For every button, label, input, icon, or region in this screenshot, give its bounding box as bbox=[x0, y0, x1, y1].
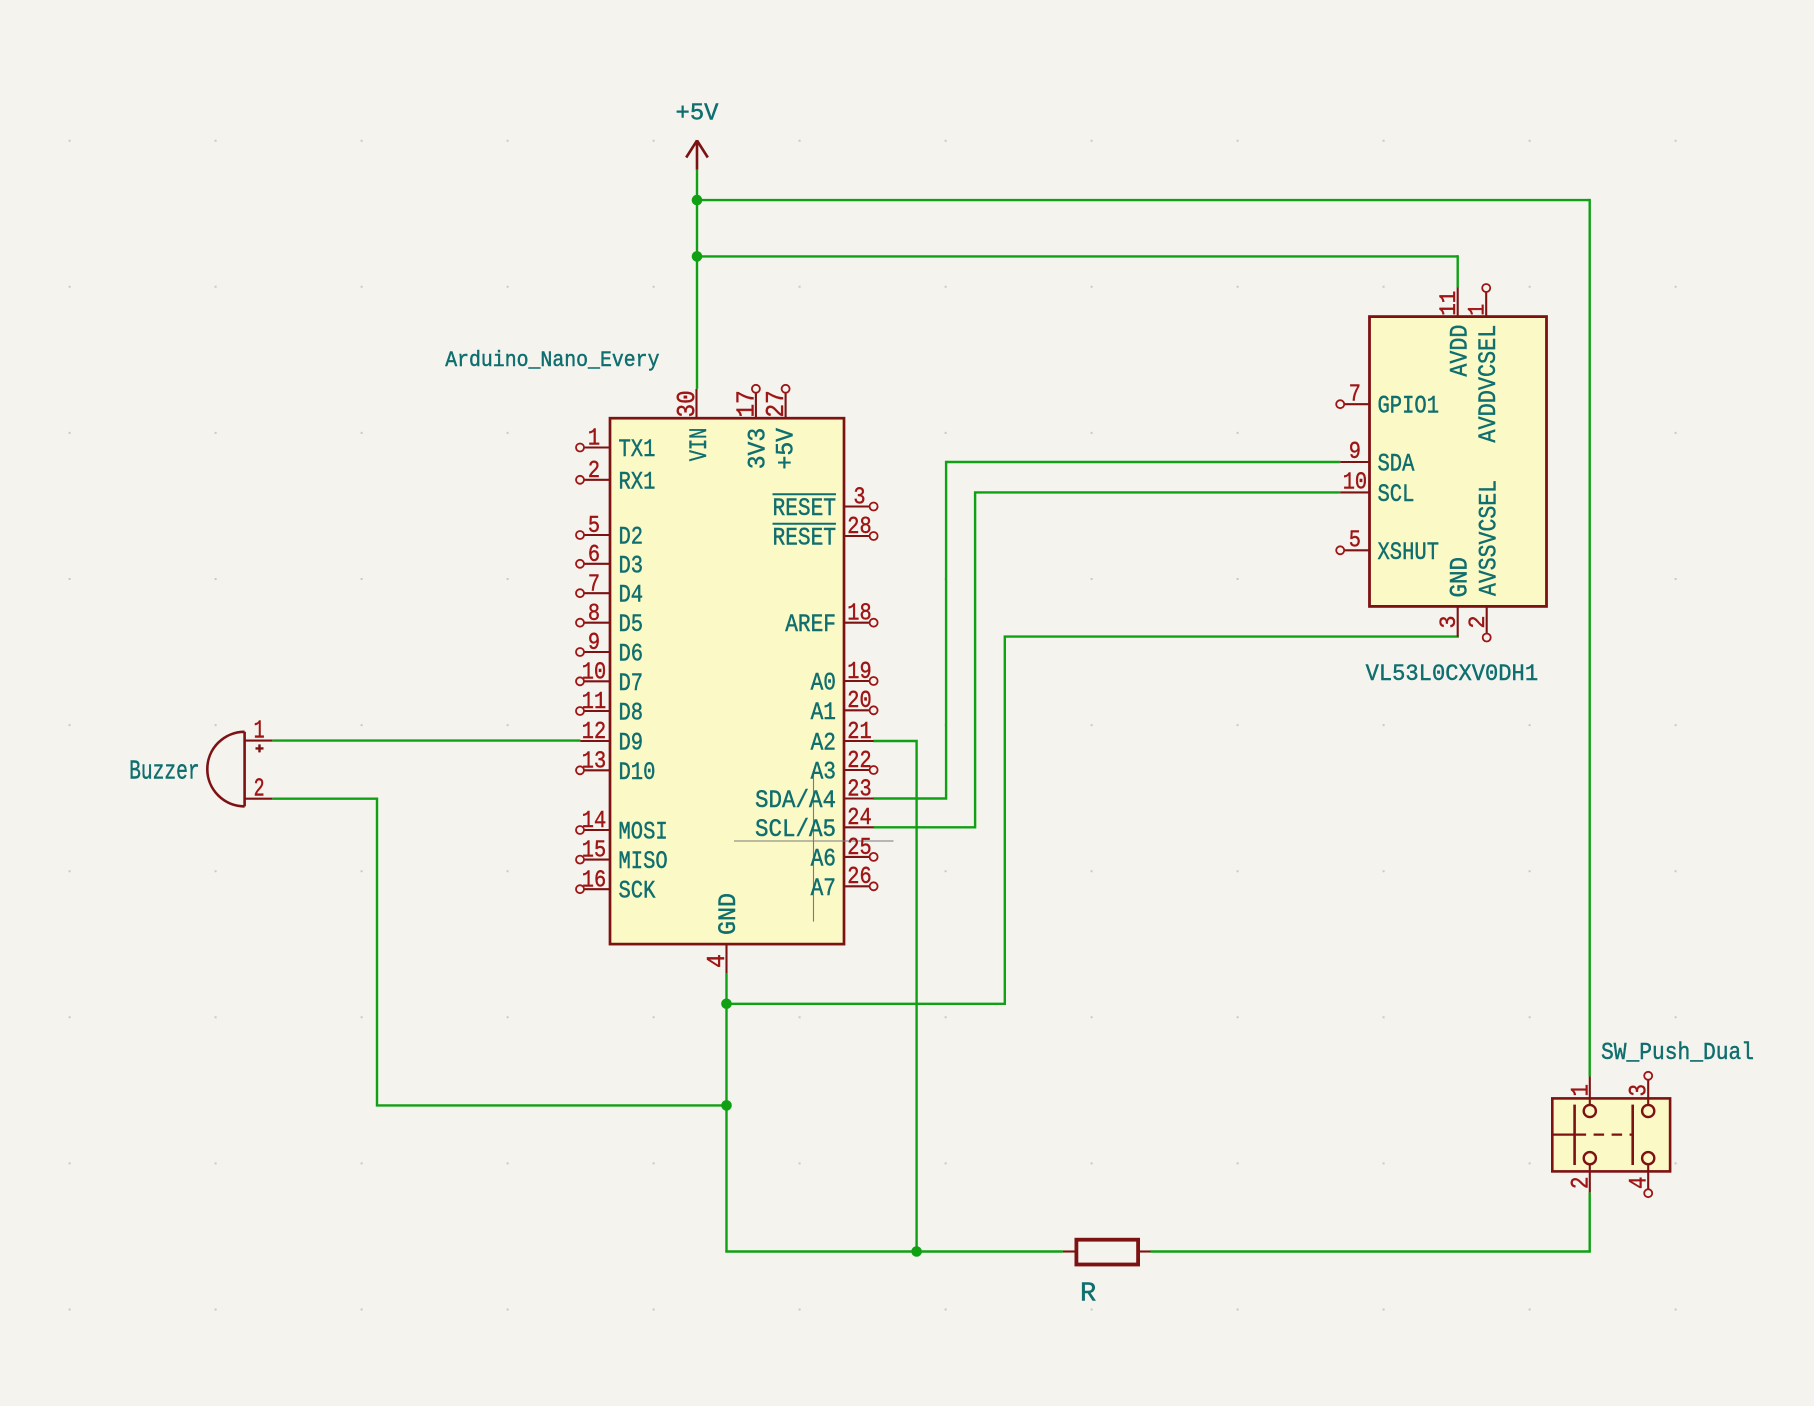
power symbol +5V bbox=[686, 140, 708, 170]
svg-text:13: 13 bbox=[582, 748, 606, 775]
wire +5V down right side to switch pin 1 bbox=[1588, 199, 1590, 1077]
svg-text:VIN: VIN bbox=[685, 428, 714, 462]
svg-text:SDA: SDA bbox=[1378, 450, 1415, 479]
svg-text:19: 19 bbox=[847, 659, 871, 686]
svg-text:SCL: SCL bbox=[1378, 480, 1415, 509]
svg-text:22: 22 bbox=[847, 748, 871, 775]
svg-text:TX1: TX1 bbox=[619, 435, 656, 464]
svg-text:A7: A7 bbox=[811, 874, 836, 903]
svg-text:AVDD: AVDD bbox=[1445, 325, 1474, 377]
wire GND vertical below pin 4 bbox=[725, 973, 727, 1251]
resistor pin 2 bbox=[1138, 1250, 1150, 1252]
pin 3 GND (VL53 bottom) bbox=[1457, 606, 1459, 636]
pin 27 +5V (top) bbox=[785, 393, 787, 419]
pin 2 AVSSVCSEL (VL53 bottom) bbox=[1486, 606, 1488, 633]
pin 11 D8 (left) bbox=[584, 710, 610, 712]
svg-text:D3: D3 bbox=[619, 551, 644, 580]
svg-text:D6: D6 bbox=[619, 640, 644, 669]
svg-text:27: 27 bbox=[761, 390, 791, 417]
svg-text:SW_Push_Dual: SW_Push_Dual bbox=[1601, 1040, 1754, 1067]
resistor pin 1 bbox=[1063, 1250, 1077, 1252]
svg-text:A3: A3 bbox=[811, 758, 836, 787]
pin 24 SCL/A5 (right) bbox=[844, 826, 874, 828]
wire down to VL53 pin 11 bbox=[1456, 255, 1458, 287]
svg-text:5: 5 bbox=[1349, 528, 1361, 555]
svg-text:6: 6 bbox=[588, 542, 600, 569]
wire A2 down to GND bottom wire bbox=[873, 741, 916, 1253]
switch pin 1 (top) bbox=[1589, 1077, 1591, 1105]
svg-text:D8: D8 bbox=[619, 699, 644, 728]
pin 28 RESET (right) bbox=[844, 535, 870, 537]
junction at 916.6,1251.5 bbox=[911, 1246, 922, 1257]
svg-text:D9: D9 bbox=[619, 729, 644, 758]
wire buzzer pin1 to D9 bbox=[272, 739, 580, 741]
svg-text:D4: D4 bbox=[619, 581, 644, 610]
pin 14 MOSI (left) bbox=[584, 829, 610, 831]
pin 5 XSHUT (VL53 left) bbox=[1344, 549, 1370, 551]
svg-text:RESET: RESET bbox=[773, 494, 837, 523]
svg-text:AREF: AREF bbox=[785, 610, 836, 639]
svg-text:3: 3 bbox=[1625, 1084, 1654, 1097]
pin 3 RESET (right) bbox=[844, 505, 870, 507]
wire +5V vertical to VIN bbox=[696, 170, 698, 389]
svg-text:+5V: +5V bbox=[772, 428, 801, 470]
junction at 726.5,1003.8 bbox=[721, 999, 732, 1010]
svg-text:17: 17 bbox=[731, 390, 761, 417]
buzzer BZ? body bbox=[207, 732, 244, 807]
svg-text:8: 8 bbox=[588, 601, 600, 628]
switch pin 3 (top) bbox=[1647, 1080, 1649, 1105]
wire SDA/A4 to VL53 SDA bbox=[873, 462, 1340, 799]
graphic line left of A6/A7 bbox=[813, 771, 815, 922]
svg-text:12: 12 bbox=[582, 719, 606, 746]
pin 13 D10 (left) bbox=[584, 769, 610, 771]
pin 1 TX1 (left) bbox=[584, 446, 610, 448]
svg-text:1: 1 bbox=[1465, 304, 1491, 316]
pin 10 D7 (left) bbox=[584, 680, 610, 682]
wire GND bottom to resistor bbox=[725, 1250, 1063, 1252]
junction at 697,200.1 bbox=[692, 195, 703, 206]
junction at 726.5,1105.4 bbox=[721, 1100, 732, 1111]
pin 23 SDA/A4 (right) bbox=[844, 797, 874, 799]
junction at 697,256.4 bbox=[692, 251, 703, 262]
pin 30 VIN (top) bbox=[695, 389, 697, 418]
svg-text:SCL/A5: SCL/A5 bbox=[755, 815, 836, 844]
pin 7 GPIO1 (VL53 left) bbox=[1344, 403, 1370, 405]
svg-text:2: 2 bbox=[254, 775, 265, 804]
pin 1 AVDDVCSEL (VL53 top) bbox=[1485, 292, 1487, 317]
pin 25 A6 (right) bbox=[844, 856, 870, 858]
pin 9 SDA (VL53 left) bbox=[1340, 461, 1369, 463]
switch contact circles bbox=[1584, 1105, 1596, 1117]
svg-text:1: 1 bbox=[1566, 1084, 1595, 1097]
svg-text:10: 10 bbox=[1343, 470, 1367, 497]
svg-text:3V3: 3V3 bbox=[744, 428, 773, 470]
svg-text:SCK: SCK bbox=[619, 877, 656, 906]
pin 12 D9 (left) bbox=[580, 740, 610, 742]
svg-text:Arduino_Nano_Every: Arduino_Nano_Every bbox=[445, 348, 659, 373]
MCU Arduino_Nano_Every body bbox=[610, 418, 844, 944]
pin 6 D3 (left) bbox=[584, 563, 610, 565]
svg-text:D10: D10 bbox=[619, 758, 656, 787]
switch SW_Push_Dual body bbox=[1552, 1098, 1670, 1171]
svg-text:A1: A1 bbox=[811, 698, 836, 727]
svg-text:15: 15 bbox=[582, 838, 606, 865]
svg-text:XSHUT: XSHUT bbox=[1378, 538, 1440, 567]
pin 4 GND (bottom) bbox=[725, 944, 727, 973]
pin 9 D6 (left) bbox=[584, 651, 610, 653]
wire resistor to switch pin 2 bbox=[1151, 1192, 1590, 1251]
wire +5V to VL53 AVDD (horizontal) bbox=[696, 255, 1458, 257]
pin 15 MISO (left) bbox=[584, 859, 610, 861]
svg-text:2: 2 bbox=[1566, 1177, 1595, 1190]
svg-text:GPIO1: GPIO1 bbox=[1378, 392, 1440, 421]
buzzer pin 1 (+) bbox=[245, 740, 273, 742]
pin 17 3V3 (top) bbox=[755, 393, 757, 419]
svg-text:A2: A2 bbox=[811, 729, 836, 758]
svg-text:MISO: MISO bbox=[619, 847, 668, 876]
svg-text:MOSI: MOSI bbox=[619, 818, 668, 847]
svg-text:1: 1 bbox=[254, 717, 265, 746]
svg-text:AVDDVCSEL: AVDDVCSEL bbox=[1474, 325, 1503, 443]
pin 2 RX1 (left) bbox=[584, 479, 610, 481]
svg-text:11: 11 bbox=[1436, 291, 1462, 316]
pin 20 A1 (right) bbox=[844, 709, 870, 711]
pin 16 SCK (left) bbox=[584, 888, 610, 890]
svg-text:7: 7 bbox=[1349, 381, 1361, 408]
svg-text:3: 3 bbox=[853, 484, 865, 511]
svg-text:18: 18 bbox=[847, 601, 871, 628]
svg-text:A6: A6 bbox=[811, 844, 836, 873]
svg-text:SDA/A4: SDA/A4 bbox=[755, 786, 836, 815]
svg-text:D5: D5 bbox=[619, 610, 644, 639]
svg-text:D7: D7 bbox=[619, 669, 644, 698]
wire SCL/A5 to VL53 SCL bbox=[873, 492, 1340, 827]
svg-text:A0: A0 bbox=[811, 669, 836, 698]
buzzer pin 2 bbox=[245, 798, 273, 800]
svg-text:28: 28 bbox=[847, 514, 871, 541]
pin 7 D4 (left) bbox=[584, 592, 610, 594]
pin 10 SCL (VL53 left) bbox=[1340, 491, 1369, 493]
svg-text:GND: GND bbox=[1445, 557, 1474, 598]
svg-text:Buzzer: Buzzer bbox=[129, 758, 200, 788]
svg-text:3: 3 bbox=[1436, 616, 1462, 629]
svg-text:5: 5 bbox=[588, 513, 600, 540]
resistor R body bbox=[1076, 1240, 1138, 1265]
pin 21 A2 (right) bbox=[844, 740, 874, 742]
svg-text:RX1: RX1 bbox=[619, 467, 656, 496]
switch pin 4 (bottom) bbox=[1647, 1164, 1649, 1189]
svg-text:AVSSVCSEL: AVSSVCSEL bbox=[1474, 480, 1503, 596]
svg-text:9: 9 bbox=[1349, 439, 1361, 466]
svg-text:+5V: +5V bbox=[676, 101, 720, 128]
pin 22 A3 (right) bbox=[844, 769, 870, 771]
svg-text:24: 24 bbox=[847, 805, 871, 832]
svg-text:2: 2 bbox=[588, 458, 600, 485]
svg-text:D2: D2 bbox=[619, 523, 644, 552]
svg-text:30: 30 bbox=[672, 390, 702, 417]
pin 8 D5 (left) bbox=[584, 622, 610, 624]
pin 18 AREF (right) bbox=[844, 622, 870, 624]
svg-text:25: 25 bbox=[847, 835, 871, 862]
svg-text:16: 16 bbox=[582, 867, 606, 894]
svg-text:4: 4 bbox=[1625, 1177, 1654, 1190]
svg-text:26: 26 bbox=[847, 864, 871, 891]
svg-text:20: 20 bbox=[847, 688, 871, 715]
switch actuator bars and dashed link bbox=[1573, 1105, 1576, 1165]
svg-text:14: 14 bbox=[582, 808, 606, 835]
svg-text:1: 1 bbox=[588, 426, 600, 453]
switch pin 2 (bottom) bbox=[1589, 1164, 1591, 1192]
pin 19 A0 (right) bbox=[844, 680, 870, 682]
svg-text:23: 23 bbox=[847, 776, 871, 803]
wire GND to VL53 pin 3 bbox=[725, 637, 1459, 1004]
svg-text:10: 10 bbox=[582, 659, 606, 686]
pin 5 D2 (left) bbox=[584, 534, 610, 536]
wire buzzer pin2 to GND net bbox=[272, 799, 727, 1106]
svg-text:GND: GND bbox=[714, 893, 743, 935]
pin 11 AVDD (VL53 top) bbox=[1457, 288, 1459, 317]
svg-text:RESET: RESET bbox=[773, 524, 837, 553]
graphic line under SCL/A5 bbox=[734, 840, 894, 842]
svg-text:9: 9 bbox=[588, 630, 600, 657]
svg-text:R: R bbox=[1080, 1280, 1096, 1310]
wire +5V to switch (horizontal) bbox=[696, 199, 1590, 201]
svg-text:7: 7 bbox=[588, 571, 600, 598]
svg-text:21: 21 bbox=[847, 719, 871, 746]
sensor VL53L0CXV0DH1 body bbox=[1370, 317, 1547, 607]
svg-text:2: 2 bbox=[1465, 616, 1491, 629]
svg-text:VL53L0CXV0DH1: VL53L0CXV0DH1 bbox=[1366, 661, 1539, 687]
svg-text:4: 4 bbox=[702, 954, 732, 968]
pin 26 A7 (right) bbox=[844, 885, 870, 887]
svg-text:11: 11 bbox=[582, 689, 606, 716]
